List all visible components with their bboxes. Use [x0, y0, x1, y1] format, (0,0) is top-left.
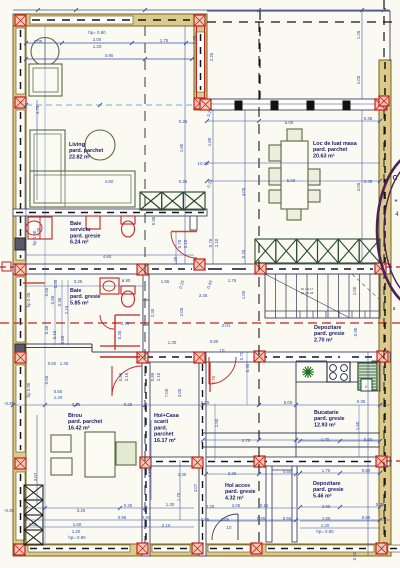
svg-text:2.10: 2.10 [162, 523, 171, 528]
svg-text:4.80: 4.80 [105, 53, 114, 58]
svg-text:1.05: 1.05 [34, 39, 43, 44]
svg-text:C: C [392, 175, 397, 182]
svg-text:1.00: 1.00 [352, 286, 357, 295]
svg-text:0.20: 0.20 [53, 279, 58, 288]
svg-text:4.75: 4.75 [35, 105, 40, 114]
svg-text:Hol acces: Hol acces [225, 483, 250, 489]
svg-text:pard. parchet: pard. parchet [68, 419, 102, 425]
svg-text:0.70: 0.70 [121, 321, 130, 326]
svg-text:0.05: 0.05 [201, 517, 210, 522]
svg-text:6.24 m²: 6.24 m² [70, 240, 89, 246]
svg-text:2.70 m²: 2.70 m² [314, 337, 333, 343]
svg-text:22.82 m²: 22.82 m² [69, 154, 91, 160]
svg-text:5.00: 5.00 [285, 120, 294, 125]
svg-text:1.60: 1.60 [355, 421, 360, 430]
svg-text:0.95: 0.95 [151, 216, 156, 225]
svg-text:0.25: 0.25 [201, 400, 210, 405]
svg-text:1.20: 1.20 [54, 395, 63, 400]
svg-text:0.90: 0.90 [245, 363, 250, 372]
svg-text:0.90: 0.90 [142, 515, 151, 520]
svg-text:pard. gresie: pard. gresie [70, 233, 101, 239]
svg-text:Living: Living [69, 142, 85, 148]
svg-text:1.20: 1.20 [93, 44, 102, 49]
svg-text:3.07: 3.07 [33, 472, 38, 481]
svg-text:0.80: 0.80 [210, 339, 219, 344]
svg-text:2.10: 2.10 [124, 372, 129, 381]
svg-text:4.80: 4.80 [103, 254, 112, 259]
svg-text:0.55: 0.55 [283, 516, 292, 521]
svg-text:1.60: 1.60 [73, 522, 82, 527]
svg-text:5.00: 5.00 [287, 178, 296, 183]
svg-text:2.15: 2.15 [64, 305, 69, 314]
svg-text:1.20: 1.20 [321, 523, 330, 528]
svg-text:1.76: 1.76 [228, 278, 237, 283]
svg-text:serviciu: serviciu [70, 227, 90, 233]
svg-text:2.05: 2.05 [179, 307, 184, 316]
svg-text:0.65: 0.65 [44, 287, 49, 296]
svg-text:0.90: 0.90 [353, 327, 358, 336]
svg-text:Depozitare: Depozitare [314, 325, 342, 331]
svg-text:7.00: 7.00 [164, 388, 169, 397]
svg-text:hp= 0.90: hp= 0.90 [88, 30, 106, 35]
svg-text:pard. gresie: pard. gresie [314, 416, 345, 422]
svg-text:1.80: 1.80 [179, 143, 184, 152]
svg-text:ø 90: ø 90 [122, 278, 131, 283]
svg-text:1.60: 1.60 [60, 335, 65, 344]
svg-text:pard. gresie: pard. gresie [313, 487, 344, 493]
svg-text:1.70: 1.70 [321, 437, 330, 442]
svg-text:1.80: 1.80 [207, 137, 212, 146]
svg-text:0.15: 0.15 [260, 503, 269, 508]
svg-text:a: a [393, 306, 396, 312]
svg-text:pard. gresie: pard. gresie [225, 489, 256, 495]
svg-text:hp 0.90: hp 0.90 [32, 230, 37, 245]
svg-text:Birou: Birou [68, 413, 82, 419]
svg-text:2.05: 2.05 [232, 503, 241, 508]
svg-text:0.35: 0.35 [364, 179, 373, 184]
svg-text:-0.35: -0.35 [4, 508, 15, 513]
svg-text:12.93 m²: 12.93 m² [314, 422, 336, 428]
svg-text:0.86: 0.86 [150, 372, 155, 381]
svg-text:0.65: 0.65 [54, 389, 63, 394]
svg-text:0.25: 0.25 [179, 179, 188, 184]
svg-text:1.30: 1.30 [178, 472, 187, 477]
svg-text:0.25: 0.25 [124, 503, 133, 508]
svg-text:3.35: 3.35 [199, 293, 208, 298]
svg-text:2.10: 2.10 [183, 239, 188, 248]
svg-text:2.00: 2.00 [93, 37, 102, 42]
svg-text:0.60: 0.60 [364, 437, 373, 442]
svg-text:5.46 m²: 5.46 m² [313, 493, 332, 499]
svg-text:0.15: 0.15 [52, 330, 57, 339]
svg-text:2.80: 2.80 [322, 504, 331, 509]
svg-text:*: * [394, 198, 397, 207]
svg-text:0.85: 0.85 [118, 372, 123, 381]
svg-text:hp= 0.90: hp= 0.90 [68, 535, 86, 540]
svg-text:0.70: 0.70 [239, 351, 244, 360]
svg-text:1.70: 1.70 [322, 468, 331, 473]
svg-text:Baie: Baie [70, 221, 81, 227]
svg-text:Bucatarie: Bucatarie [314, 410, 339, 416]
svg-text:20.63 m²: 20.63 m² [313, 153, 335, 159]
svg-text:0.75: 0.75 [211, 375, 216, 384]
svg-text:1.55: 1.55 [161, 279, 170, 284]
svg-text:pard.: pard. [154, 425, 168, 431]
svg-text:scarii: scarii [154, 419, 169, 425]
svg-text:0.95: 0.95 [57, 297, 62, 306]
svg-text:hp 0.90: hp 0.90 [26, 382, 31, 397]
svg-text:0.25: 0.25 [206, 504, 215, 509]
svg-text:0.85: 0.85 [50, 295, 55, 304]
svg-text:pard. gresie: pard. gresie [70, 294, 101, 300]
svg-text:10: 10 [220, 348, 225, 353]
svg-text:0.25: 0.25 [179, 119, 188, 124]
svg-text:5.85 m²: 5.85 m² [70, 300, 89, 306]
svg-text:3.25: 3.25 [74, 279, 83, 284]
svg-text:10: 10 [227, 525, 232, 530]
svg-text:0.50: 0.50 [283, 469, 292, 474]
svg-text:Depozitare: Depozitare [313, 481, 341, 487]
svg-text:1.20: 1.20 [72, 529, 81, 534]
svg-text:pard. gresie: pard. gresie [314, 331, 345, 337]
svg-text:0.46: 0.46 [44, 325, 49, 334]
svg-text:2.26: 2.26 [209, 52, 214, 61]
svg-text:1.75: 1.75 [160, 38, 169, 43]
svg-text:0.75: 0.75 [177, 239, 182, 248]
svg-text:2.50: 2.50 [214, 418, 219, 427]
svg-text:1.05: 1.05 [221, 517, 230, 522]
svg-text:hp= 0.90: hp= 0.90 [316, 529, 334, 534]
svg-text:4.05: 4.05 [356, 182, 361, 191]
svg-text:1.20: 1.20 [173, 256, 178, 265]
svg-text:0.65: 0.65 [362, 515, 371, 520]
svg-text:0.25: 0.25 [124, 402, 133, 407]
svg-text:pard. parchet: pard. parchet [69, 148, 103, 154]
svg-text:parchet: parchet [154, 432, 174, 438]
svg-text:2.10: 2.10 [214, 238, 219, 247]
svg-text:0.35: 0.35 [117, 330, 122, 339]
svg-text:3.07: 3.07 [193, 483, 198, 492]
svg-text:1.25: 1.25 [356, 30, 361, 39]
svg-text:Baie: Baie [70, 288, 81, 294]
svg-text:3.00: 3.00 [177, 388, 182, 397]
svg-text:1.80: 1.80 [322, 516, 331, 521]
svg-text:1.30: 1.30 [168, 340, 177, 345]
svg-text:0.76: 0.76 [208, 238, 213, 247]
svg-text:Hol+Casa: Hol+Casa [154, 413, 180, 419]
svg-text:1.00: 1.00 [241, 290, 246, 299]
svg-text:5.00: 5.00 [284, 400, 293, 405]
svg-text:0.35: 0.35 [364, 116, 373, 121]
svg-text:0.50: 0.50 [352, 551, 357, 560]
svg-text:16.42 m²: 16.42 m² [68, 425, 90, 431]
svg-text:4.05: 4.05 [241, 187, 246, 196]
svg-text:0.60: 0.60 [48, 361, 57, 366]
svg-text:4.80: 4.80 [105, 179, 114, 184]
svg-text:0.25: 0.25 [241, 249, 246, 258]
svg-text:2.01: 2.01 [222, 323, 231, 328]
svg-text:2.35: 2.35 [192, 35, 197, 44]
svg-text:3.86: 3.86 [147, 468, 152, 477]
svg-text:0.65: 0.65 [44, 375, 49, 384]
svg-text:1.40: 1.40 [60, 361, 69, 366]
svg-text:2.30: 2.30 [150, 308, 155, 317]
svg-text:2.70: 2.70 [242, 438, 251, 443]
svg-text:16.17 m²: 16.17 m² [154, 438, 176, 444]
svg-text:Loc de luat masa: Loc de luat masa [313, 141, 358, 147]
svg-text:2.10: 2.10 [156, 372, 161, 381]
svg-text:1.70: 1.70 [176, 492, 181, 501]
svg-text:hp 0.95: hp 0.95 [26, 292, 31, 307]
svg-text:0.95: 0.95 [29, 522, 38, 527]
svg-text:pard. parchet: pard. parchet [313, 147, 347, 153]
svg-text:2.30: 2.30 [228, 471, 237, 476]
svg-text:0.95: 0.95 [118, 515, 127, 520]
svg-text:0.65: 0.65 [257, 516, 266, 521]
svg-text:1.30: 1.30 [166, 502, 175, 507]
svg-text:0.60: 0.60 [362, 468, 371, 473]
svg-text:1.00: 1.00 [356, 75, 361, 84]
svg-text:4.32 m²: 4.32 m² [225, 495, 244, 501]
svg-text:10.05: 10.05 [198, 161, 210, 166]
svg-text:3.25: 3.25 [77, 508, 86, 513]
svg-text:0.35: 0.35 [357, 399, 366, 404]
svg-text:19 x 0.28: 19 x 0.28 [301, 291, 314, 295]
